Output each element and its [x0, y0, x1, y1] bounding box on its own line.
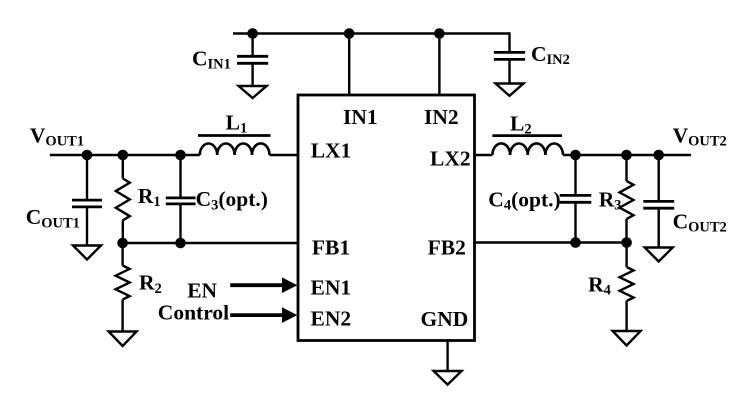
pin LX1	[311, 139, 352, 163]
resistor R1	[116, 179, 130, 221]
wire CIN1 lower lead	[251, 63, 253, 86]
ground R4	[613, 331, 641, 346]
inductor L2	[492, 136, 563, 155]
wire C3 upper lead	[179, 155, 181, 198]
wire C4 upper lead	[574, 155, 576, 195]
capacitor COUT2	[643, 201, 674, 208]
node C4 top junction	[570, 150, 581, 161]
node R3 top junction	[621, 150, 632, 161]
node CIN1 junction	[247, 28, 258, 39]
wire EN2 arrow	[230, 307, 297, 323]
label COUT2	[673, 209, 727, 235]
wire GND pin lead	[446, 341, 448, 372]
svg-text:LX1: LX1	[311, 139, 352, 163]
svg-text:C3(opt.): C3(opt.)	[196, 187, 268, 213]
wire C3 lower lead	[179, 204, 181, 243]
svg-text:IN1: IN1	[343, 105, 378, 129]
wire VOUT2 output rail	[563, 154, 691, 156]
label C4 (opt.)	[488, 187, 560, 213]
wire COUT2 upper lead	[658, 155, 660, 201]
wire R4 lower lead	[625, 301, 627, 331]
wire FB2 line	[475, 241, 627, 243]
capacitor CIN1	[237, 56, 268, 63]
wire R3 upper lead	[625, 155, 627, 181]
label R3	[599, 187, 622, 213]
label EN	[187, 279, 217, 303]
wire R2 upper lead	[121, 243, 123, 266]
node C3 bottom junction	[175, 238, 186, 249]
pin FB1	[312, 235, 350, 259]
label VOUT2	[673, 123, 727, 149]
wire CIN1 upper lead	[251, 34, 253, 57]
resistor R4	[620, 267, 634, 301]
svg-text:LX2: LX2	[430, 147, 471, 171]
pin IN2	[424, 105, 459, 129]
wire CIN2 lower lead	[508, 59, 510, 83]
wire LX2 to L2	[475, 154, 493, 156]
wire COUT1 upper lead	[86, 155, 88, 200]
svg-text:EN: EN	[187, 279, 217, 303]
wire top input rail	[233, 32, 510, 34]
label Control	[158, 301, 229, 325]
node C4 bottom junction	[570, 237, 581, 248]
label R4	[588, 272, 611, 298]
wire EN1 arrow	[230, 277, 297, 293]
ground R2	[109, 332, 137, 347]
node IN1 junction	[344, 28, 355, 39]
node C3 top junction	[175, 150, 186, 161]
wire IN1 pin lead	[348, 34, 350, 96]
label COUT1	[26, 205, 80, 231]
pin EN1	[311, 276, 352, 300]
svg-text:C4(opt.): C4(opt.)	[488, 187, 560, 213]
op-amp U1 IC body	[298, 95, 475, 341]
wire C4 lower lead	[574, 202, 576, 242]
capacitor C4	[560, 195, 592, 202]
ground COUT1	[73, 246, 101, 260]
label CIN1	[192, 47, 231, 73]
svg-text:Control: Control	[158, 301, 229, 325]
pin GND	[421, 307, 469, 331]
wire IN2 pin lead	[438, 34, 440, 96]
label L2	[510, 111, 532, 137]
wire VOUT1 output rail	[50, 154, 200, 156]
ground CIN2	[496, 84, 524, 96]
node IN2 junction	[434, 28, 445, 39]
resistor R3	[620, 181, 634, 219]
svg-text:IN2: IN2	[424, 105, 459, 129]
label CIN2	[531, 42, 570, 68]
inductor L1	[198, 136, 271, 156]
wire FB1 line	[123, 242, 298, 244]
ground GND pin	[434, 371, 462, 385]
svg-text:FB2: FB2	[428, 235, 466, 259]
pin IN1	[343, 105, 378, 129]
wire R1 upper lead	[122, 155, 124, 179]
svg-text:EN2: EN2	[311, 306, 352, 330]
node R1 top junction	[118, 150, 129, 161]
label L1	[226, 111, 248, 137]
wire R4 upper lead	[625, 243, 627, 268]
wire R1 lower lead	[122, 220, 124, 243]
wire R3 lower lead	[625, 219, 627, 243]
svg-text:GND: GND	[421, 307, 469, 331]
wire COUT2 lower lead	[658, 208, 660, 247]
wire L1 to LX1	[270, 154, 299, 156]
ground CIN1	[239, 86, 267, 98]
resistor R2	[116, 266, 130, 300]
node R4 top junction	[621, 237, 632, 248]
capacitor C3	[166, 198, 196, 204]
node COUT2 junction	[653, 150, 664, 161]
pin FB2	[428, 235, 466, 259]
wire COUT1 lower lead	[86, 207, 88, 246]
label C3 (opt.)	[196, 187, 268, 213]
capacitor COUT1	[72, 200, 102, 207]
wire R2 lower lead	[121, 300, 123, 332]
label R1	[138, 184, 161, 210]
svg-text:FB1: FB1	[312, 235, 350, 259]
label R2	[139, 271, 162, 297]
pin EN2	[311, 306, 352, 330]
wire CIN2 drop from rail	[508, 32, 510, 52]
svg-text:EN1: EN1	[311, 276, 352, 300]
capacitor CIN2	[494, 52, 525, 59]
label VOUT1	[30, 123, 84, 149]
node COUT1 junction	[82, 150, 93, 161]
pin LX2	[430, 147, 471, 171]
node R2 top junction	[117, 238, 128, 249]
ground COUT2	[645, 248, 673, 262]
